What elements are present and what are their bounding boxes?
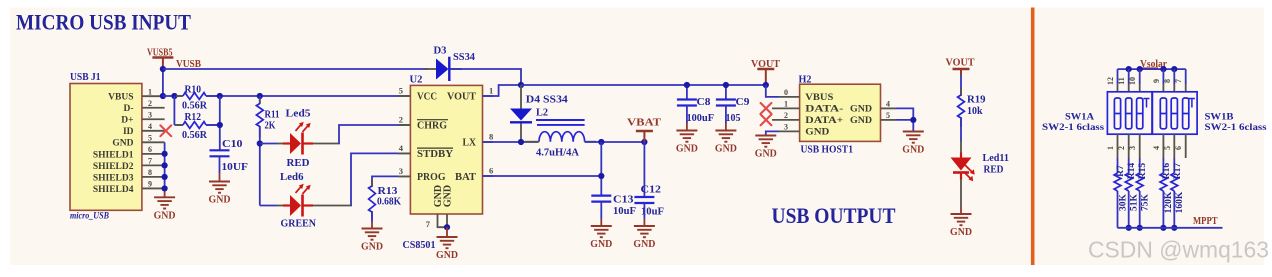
svg-text:12: 12 — [1106, 77, 1115, 85]
svg-text:105: 105 — [726, 113, 741, 124]
junction VOUT net — [518, 82, 524, 88]
resistor R15 75K — [1139, 158, 1141, 173]
IC U2 pin stubs — [398, 95, 410, 97]
junction BAT row — [598, 173, 604, 179]
svg-text:8: 8 — [489, 132, 493, 142]
svg-text:GND: GND — [715, 144, 737, 155]
svg-text:Led6: Led6 — [280, 172, 304, 183]
svg-text:8: 8 — [148, 168, 152, 177]
svg-text:GND: GND — [361, 242, 383, 253]
svg-text:RED: RED — [984, 164, 1004, 175]
svg-text:GND: GND — [755, 149, 777, 160]
svg-text:7: 7 — [1174, 79, 1183, 83]
svg-text:CSDN @wmq163: CSDN @wmq163 — [1088, 237, 1269, 263]
svg-text:Led5: Led5 — [286, 109, 311, 120]
junction J1 pin1 — [160, 93, 166, 99]
wire U2 BAT pin 6 — [483, 175, 602, 177]
wire Led6 to U2 STDBY pin 4 — [313, 205, 352, 207]
switch SW1 top pin 9 — [1162, 69, 1164, 84]
svg-text:SW1A: SW1A — [1065, 113, 1094, 123]
ground GND below H2 pin3 — [755, 136, 776, 147]
svg-text:LX: LX — [463, 137, 477, 148]
svg-text:GND: GND — [950, 227, 972, 238]
junction Led5 row — [257, 140, 263, 146]
junction MPPT bus R14 — [1126, 225, 1132, 231]
switch element 6 — [1183, 98, 1189, 129]
switch SW1 bottom pin 6 — [1185, 134, 1187, 158]
svg-text:GND: GND — [443, 185, 454, 207]
svg-text:C8: C8 — [697, 97, 711, 108]
svg-text:VOUT: VOUT — [447, 91, 476, 102]
no-connect X on H2 pin 1 — [761, 103, 772, 114]
svg-text:DATA+: DATA+ — [805, 116, 843, 126]
connector J1 pin 6 — [142, 153, 165, 155]
switch SW1A T mark — [1144, 99, 1150, 108]
IC U2 pin names — [417, 91, 477, 207]
junction D4 cathode at LX — [518, 139, 524, 145]
ground GND below C12 — [634, 226, 655, 237]
junction VBAT stem — [641, 139, 647, 145]
resistor R11 — [259, 96, 261, 104]
wire Vsolar bus — [1118, 68, 1186, 70]
junction VUSB corner — [160, 66, 166, 72]
svg-text:R15: R15 — [1138, 163, 1148, 180]
LED Led5 — [283, 142, 290, 144]
switch element 1 — [1114, 98, 1120, 129]
no-connect X on H2 pin 2 — [761, 115, 772, 126]
capacitor C12 — [643, 142, 645, 197]
wire VUSB net to D3 — [163, 68, 428, 70]
switch SW1B T mark — [1189, 99, 1195, 108]
wire Led11 to ground — [960, 179, 962, 207]
svg-text:USB HOST1: USB HOST1 — [801, 145, 854, 156]
wire MPPT bus — [1118, 227, 1223, 229]
switch element 4 — [1160, 98, 1166, 129]
resistor R13 — [371, 179, 373, 187]
svg-text:3: 3 — [148, 110, 152, 119]
svg-text:SW2-1 6class: SW2-1 6class — [1042, 123, 1104, 133]
no-connect X on J1 pin 4 (ID) — [160, 125, 171, 136]
svg-text:GREEN: GREEN — [281, 219, 317, 230]
svg-text:ID: ID — [123, 127, 134, 137]
connector J1 pin names — [93, 93, 134, 195]
svg-text:1: 1 — [784, 100, 788, 109]
switch SW1 bottom pin 1 — [1117, 134, 1119, 158]
svg-text:R14: R14 — [1127, 163, 1137, 180]
junction L2 right — [598, 139, 604, 145]
ground GND below Led11 — [951, 214, 972, 225]
svg-text:SW1B: SW1B — [1205, 113, 1235, 123]
IC U2 pin numbers — [399, 86, 494, 229]
junction R11 top — [257, 93, 263, 99]
svg-text:7: 7 — [148, 157, 152, 166]
svg-text:D3: D3 — [434, 46, 447, 57]
svg-text:CS8501: CS8501 — [403, 240, 436, 251]
svg-text:R16: R16 — [1162, 163, 1172, 180]
connector J1 pin numbers 1-9 — [148, 87, 152, 188]
svg-text:6: 6 — [489, 166, 493, 176]
svg-text:GND: GND — [805, 128, 829, 138]
connector J1 pin 1 — [142, 95, 165, 97]
svg-text:R19: R19 — [967, 95, 986, 106]
switch element 3 — [1137, 98, 1143, 129]
svg-text:9: 9 — [1152, 79, 1161, 83]
svg-text:C13: C13 — [613, 194, 634, 205]
svg-text:C10: C10 — [222, 139, 243, 150]
junction J1 pin9 — [162, 185, 168, 191]
orange divider line — [1031, 8, 1035, 266]
resistor R19 — [960, 75, 962, 95]
svg-text:0.68K: 0.68K — [377, 196, 401, 207]
H2 gray pin stubs — [779, 96, 800, 98]
wire U2 PROG pin 3 to R13 — [372, 176, 410, 186]
svg-text:GND: GND — [436, 250, 458, 261]
junction Vsolar bus w2 — [1126, 66, 1132, 72]
capacitor C9 — [725, 85, 727, 100]
switch SW1 top pin 12 — [1117, 69, 1119, 84]
switch element 5 — [1171, 98, 1177, 129]
connector J1 pin 7 — [142, 164, 165, 166]
resistor R17 160K — [1173, 158, 1175, 173]
svg-text:PROG: PROG — [417, 172, 446, 183]
svg-text:SW2-1 6class: SW2-1 6class — [1205, 123, 1267, 133]
svg-text:VBUS: VBUS — [108, 93, 133, 103]
svg-text:6: 6 — [1174, 146, 1183, 150]
svg-text:6: 6 — [148, 145, 152, 154]
capacitor C8 — [686, 85, 688, 100]
svg-text:R12: R12 — [185, 112, 202, 123]
junction J1 pin6 — [162, 151, 168, 157]
wire J1 pin1 to R10 — [163, 95, 182, 97]
switch element 2 — [1126, 98, 1132, 129]
svg-text:GND: GND — [676, 144, 698, 155]
connector J1 body — [70, 84, 142, 211]
svg-text:1: 1 — [1106, 146, 1115, 150]
ground GND below J1 — [154, 197, 175, 208]
junction C8 — [684, 82, 690, 88]
svg-text:CHRG: CHRG — [417, 120, 447, 131]
resistor R7 30K — [1117, 158, 1119, 173]
junction C9 — [723, 82, 729, 88]
svg-text:1: 1 — [148, 87, 152, 96]
svg-text:VBUS: VBUS — [805, 93, 833, 103]
svg-text:3: 3 — [399, 166, 403, 176]
svg-text:2: 2 — [399, 115, 403, 125]
svg-text:GND: GND — [112, 139, 133, 149]
svg-text:5: 5 — [399, 86, 403, 96]
svg-text:5: 5 — [148, 134, 152, 143]
svg-text:5: 5 — [1163, 146, 1172, 150]
LED Led6 — [283, 204, 290, 206]
wire VOUT net to H2 — [521, 84, 766, 86]
svg-text:GND: GND — [590, 239, 612, 250]
svg-text:GND: GND — [633, 239, 655, 250]
svg-text:160K: 160K — [1175, 191, 1185, 213]
switch SW1 bottom pin 5 — [1173, 134, 1175, 158]
wire Led5 to U2 CHRG pin 2 — [313, 143, 340, 145]
svg-text:100uF: 100uF — [687, 113, 715, 124]
svg-text:51K: 51K — [1130, 193, 1140, 211]
resistor R14 51K — [1128, 158, 1130, 173]
connector J1 pin 3 — [142, 118, 165, 120]
wire U2 VOUT pin1 jog — [483, 85, 522, 96]
ground GND below R13 — [362, 229, 383, 240]
junction Vsolar bus w4 — [1160, 66, 1166, 72]
ground GND below U2 — [437, 237, 458, 248]
svg-text:STDBY: STDBY — [417, 149, 454, 160]
svg-text:micro_USB: micro_USB — [70, 212, 109, 222]
svg-text:R17: R17 — [1173, 163, 1183, 180]
svg-text:D+: D+ — [121, 116, 133, 126]
junction J1 pin8 — [162, 174, 168, 180]
svg-text:VBAT: VBAT — [627, 118, 661, 129]
ground GND below C8 — [676, 131, 697, 142]
junction MPPT bus R17 — [1171, 225, 1177, 231]
switch SW1 bottom pin 2 — [1128, 134, 1130, 158]
svg-text:GND: GND — [850, 116, 872, 126]
wire R10 to R11 junction and U2 VCC — [206, 95, 410, 97]
ground GND below C13 — [591, 226, 612, 237]
svg-text:10: 10 — [1128, 77, 1137, 85]
svg-text:SHIELD3: SHIELD3 — [93, 173, 134, 183]
junction R10/R12 left — [171, 93, 177, 99]
svg-text:4: 4 — [148, 122, 152, 131]
svg-text:RED: RED — [287, 158, 310, 169]
junction Vsolar bus w5 — [1171, 66, 1177, 72]
connector J1 pin 2 — [142, 107, 165, 109]
svg-text:2: 2 — [784, 111, 788, 120]
LED Led11 — [960, 153, 962, 158]
svg-text:4: 4 — [1152, 146, 1161, 150]
svg-text:GND: GND — [209, 195, 231, 206]
svg-text:3: 3 — [1128, 146, 1137, 150]
svg-text:4.7uH/4A: 4.7uH/4A — [536, 147, 580, 158]
H2 pin 2 stub — [772, 119, 800, 121]
svg-text:MICRO USB INPUT: MICRO USB INPUT — [16, 10, 191, 35]
wire R12 left leg — [173, 96, 175, 125]
junction J1 pin7 — [162, 162, 168, 168]
junction MPPT bus R16 — [1160, 225, 1166, 231]
svg-text:10UF: 10UF — [222, 162, 249, 173]
wire VOUT to H2 pin 0 — [766, 85, 779, 97]
H2 pin 3 to ground — [766, 131, 779, 135]
svg-text:9: 9 — [148, 180, 152, 189]
svg-text:8: 8 — [1163, 79, 1172, 83]
svg-text:USB OUTPUT: USB OUTPUT — [772, 203, 896, 228]
svg-text:SHIELD1: SHIELD1 — [93, 150, 134, 160]
svg-text:MPPT: MPPT — [1193, 216, 1218, 227]
svg-text:USB J1: USB J1 — [70, 72, 101, 83]
wire to Led6 — [260, 205, 277, 207]
svg-text:3: 3 — [784, 123, 788, 132]
ground GND right of H2 — [903, 132, 924, 143]
junction R10 right — [217, 93, 223, 99]
svg-text:2: 2 — [1117, 146, 1126, 150]
switch SW1A body — [1107, 92, 1152, 134]
svg-text:0.56R: 0.56R — [182, 101, 208, 112]
svg-text:GND: GND — [154, 210, 176, 221]
wire R19 to Led11 — [960, 118, 962, 141]
svg-text:10k: 10k — [967, 106, 983, 117]
ground GND below C10 — [209, 182, 230, 193]
svg-text:5: 5 — [886, 111, 890, 120]
wire D3 cathode to VOUT junction — [450, 69, 521, 85]
svg-text:75K: 75K — [1141, 193, 1151, 211]
resistor R16 120K — [1162, 158, 1164, 173]
junction H2 pin5 — [910, 117, 916, 123]
svg-text:0: 0 — [784, 88, 788, 97]
capacitor C10 — [210, 149, 230, 151]
svg-text:R10: R10 — [185, 84, 202, 95]
capacitor C13 — [591, 195, 611, 197]
svg-text:D-: D- — [123, 104, 133, 114]
svg-text:2: 2 — [148, 99, 152, 108]
svg-text:1: 1 — [489, 86, 493, 96]
svg-text:BAT: BAT — [455, 172, 476, 183]
switch SW1 bottom pin 4 — [1162, 134, 1164, 158]
connector J1 pin 4 — [142, 130, 165, 132]
svg-text:SHIELD4: SHIELD4 — [93, 185, 134, 195]
junction Vsolar bus w3 — [1137, 66, 1143, 72]
switch SW1 top pin 10 — [1139, 69, 1141, 84]
connector H2 pin names — [805, 93, 872, 138]
ground GND below C9 — [715, 131, 736, 142]
connector H2 pin numbers — [784, 88, 890, 132]
switch SW1 top pin 8 — [1173, 69, 1175, 84]
U2 pins 7 to ground — [438, 214, 448, 227]
svg-text:R11: R11 — [265, 109, 280, 120]
svg-text:SS34: SS34 — [453, 52, 475, 63]
svg-text:VOUT: VOUT — [946, 57, 975, 68]
wire to Led5 — [260, 143, 277, 145]
wire U2 LX pin 8 — [483, 141, 539, 143]
connector H2 body — [800, 84, 881, 141]
svg-text:10uF: 10uF — [613, 206, 636, 217]
svg-text:R13: R13 — [378, 186, 398, 197]
H2 pins 4,5 to ground — [896, 108, 913, 131]
switch SW1B body — [1152, 92, 1197, 134]
wire J1 shield ground bus — [164, 142, 166, 188]
connector J1 pin 9 — [142, 187, 165, 189]
svg-text:SHIELD2: SHIELD2 — [93, 162, 134, 172]
wire R12 right leg — [206, 124, 220, 126]
junction R12 right — [217, 122, 223, 128]
svg-text:120K: 120K — [1164, 191, 1174, 213]
svg-text:VCC: VCC — [417, 91, 437, 102]
svg-text:C9: C9 — [736, 97, 750, 108]
switch SW1 top pin 11 — [1128, 69, 1130, 84]
H2 pin 1 stub — [772, 107, 800, 109]
switch SW1 bottom pin 3 — [1139, 134, 1141, 158]
wire VUSB vertical to J1 pin1 — [162, 69, 164, 96]
svg-text:L2: L2 — [536, 108, 548, 119]
svg-text:DATA-: DATA- — [805, 105, 843, 115]
svg-text:4: 4 — [886, 100, 890, 109]
svg-text:C12: C12 — [641, 185, 662, 196]
connector J1 pin 8 — [142, 176, 165, 178]
svg-text:Led11: Led11 — [983, 153, 1010, 164]
svg-text:0.56R: 0.56R — [182, 130, 208, 141]
junction MPPT bus R15 — [1137, 225, 1143, 231]
svg-text:30K: 30K — [1118, 193, 1128, 211]
svg-text:U2: U2 — [410, 75, 423, 86]
switch SW1 top pin 7 — [1185, 69, 1187, 84]
resistor R10 — [176, 95, 183, 97]
junction VOUT-H2 — [763, 82, 769, 88]
svg-text:GND: GND — [902, 145, 924, 156]
connector J1 pin 5 — [142, 141, 165, 143]
svg-text:GND: GND — [850, 105, 872, 115]
svg-text:2K: 2K — [265, 120, 276, 131]
resistor R12 — [176, 124, 183, 126]
wire L2 to VBAT — [585, 141, 645, 143]
svg-text:D4 SS34: D4 SS34 — [526, 94, 568, 105]
svg-text:11: 11 — [1117, 77, 1126, 85]
IC U2 body — [410, 85, 482, 214]
